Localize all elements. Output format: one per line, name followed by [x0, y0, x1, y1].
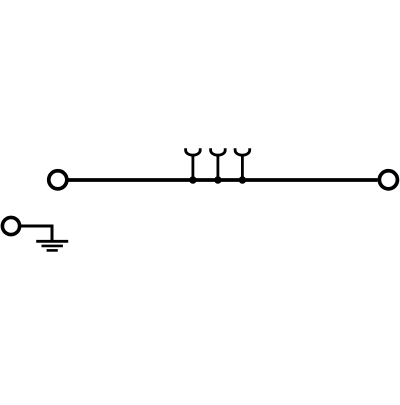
- ground (earth symbol): [36, 241, 68, 250]
- cross-connection contact CC1 (tulip): [186, 148, 201, 180]
- junction dot J3: [239, 176, 246, 183]
- terminal X1 (left connection point): [49, 171, 67, 189]
- junction dot J1: [189, 176, 196, 183]
- wire (main horizontal conductor): [69, 178, 378, 182]
- junction dot J2: [214, 176, 221, 183]
- terminal X2 (right connection point): [379, 171, 397, 189]
- cross-connection contact CC3 (tulip): [235, 148, 250, 180]
- wire (PE terminal to ground): [20, 226, 52, 241]
- cross-connection contact CC2 (tulip): [211, 148, 226, 180]
- terminal PE (ground connection point): [2, 217, 19, 234]
